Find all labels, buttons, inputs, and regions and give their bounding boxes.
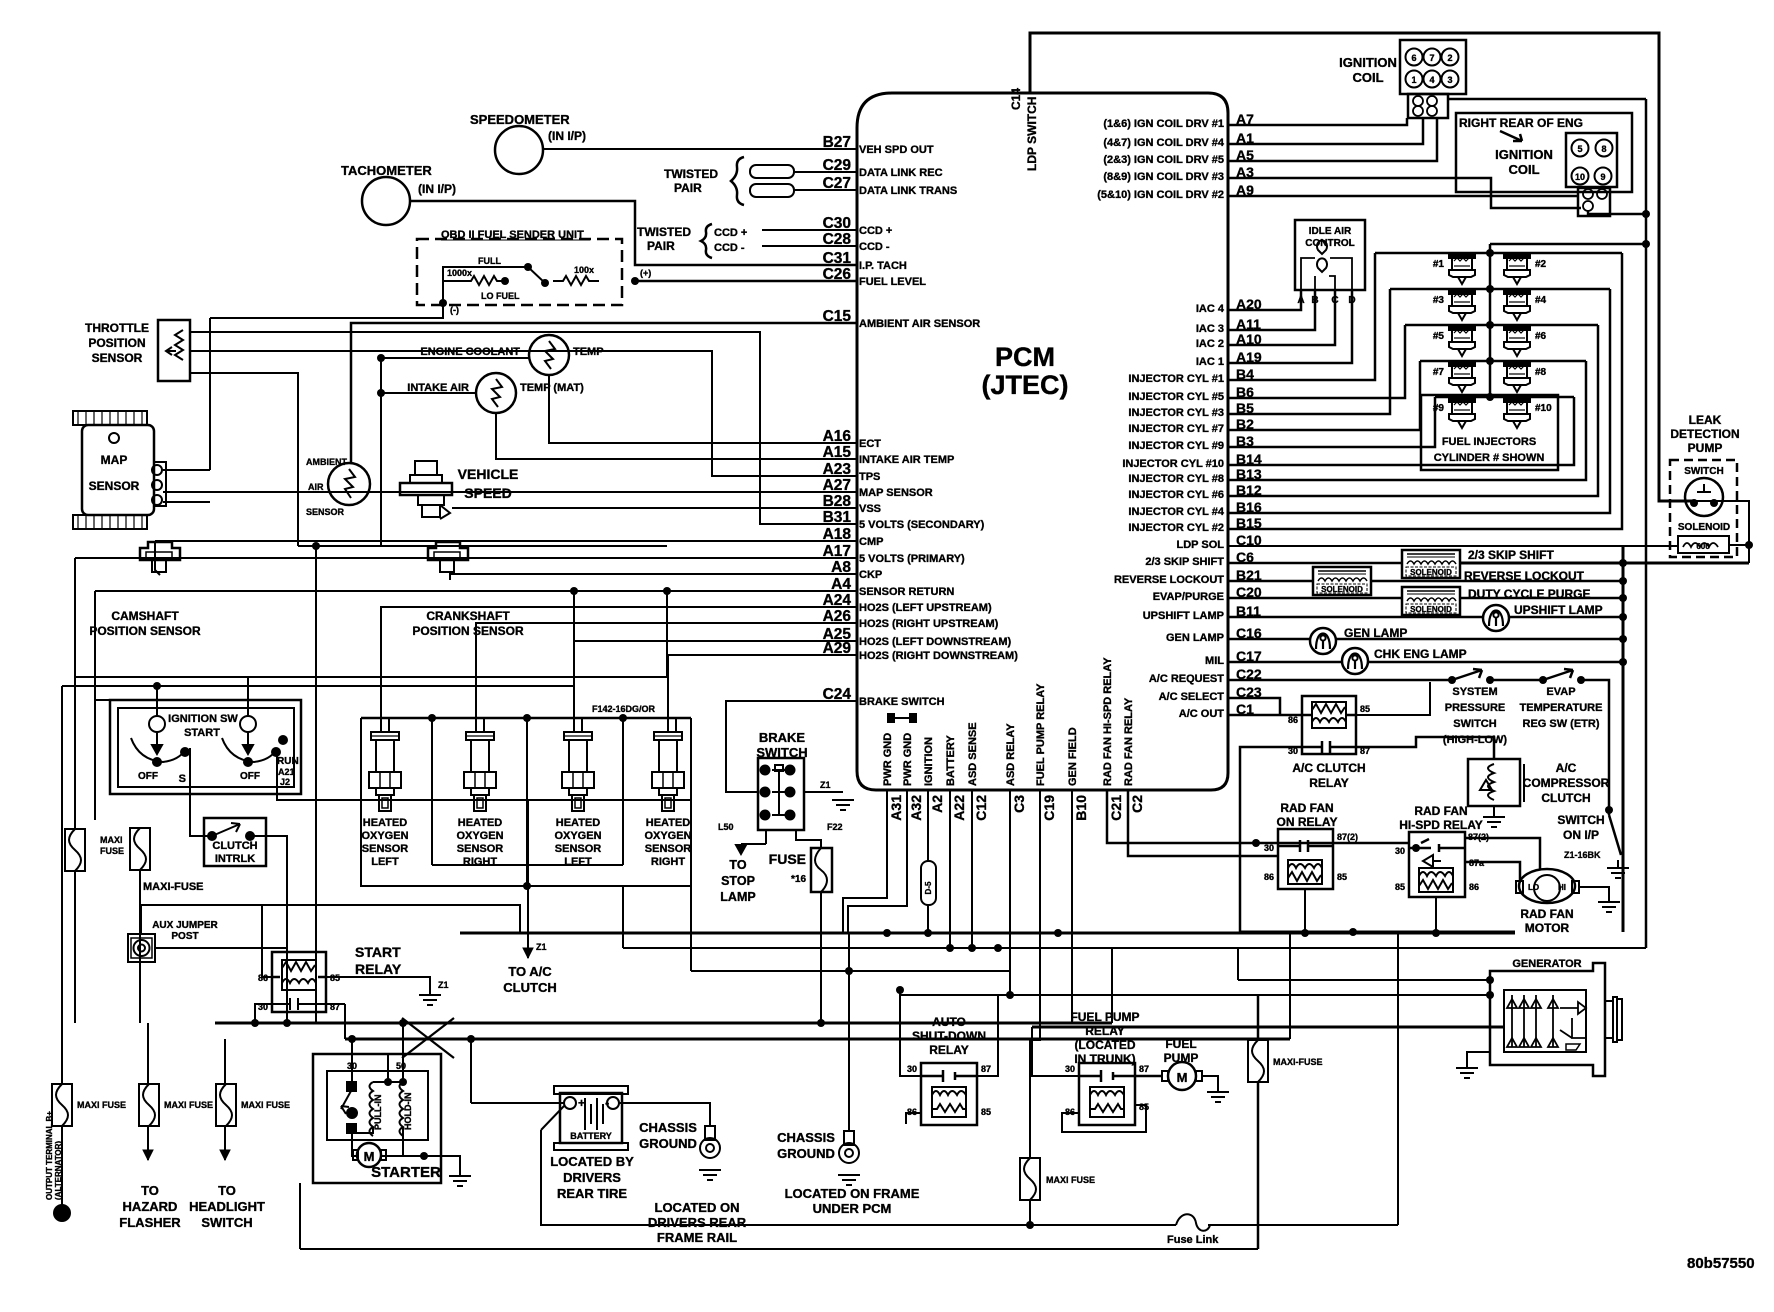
svg-text:LDP SWITCH: LDP SWITCH (1025, 97, 1039, 171)
svg-text:(-): (-) (450, 305, 459, 315)
svg-text:CLUTCH: CLUTCH (1541, 791, 1590, 805)
junction 1058,933 (1054, 929, 1062, 937)
pin A3 (8&9) IGN COIL DRV #3 (1103, 164, 1254, 183)
junction 471,1039 (467, 1035, 475, 1043)
wire start relay 30 (255, 1004, 272, 1023)
MAP sensor (73, 411, 166, 529)
svg-text:SENSOR RETURN: SENSOR RETURN (859, 586, 954, 598)
pin A16 ECT (823, 428, 882, 450)
pin A26 HO2S (RIGHT UPSTREAM) (823, 608, 999, 630)
svg-text:TO A/C: TO A/C (508, 964, 552, 979)
pin A8 CKP (831, 559, 882, 581)
svg-text:SWITCH: SWITCH (1557, 813, 1604, 827)
svg-text:CCD -: CCD - (714, 242, 745, 254)
svg-text:START: START (184, 727, 220, 739)
wire B21 reverse lockout (1228, 580, 1313, 583)
svg-text:A32: A32 (908, 795, 924, 821)
injector row 4 feed wire (1420, 360, 1586, 363)
svg-text:INJECTOR CYL #6: INJECTOR CYL #6 (1128, 489, 1224, 501)
D-5 splice (921, 861, 936, 905)
svg-text:FUEL: FUEL (1165, 1037, 1196, 1051)
wire starter coils top (373, 1081, 403, 1083)
pin A7 (1&6) IGN COIL DRV #1 (1103, 111, 1254, 130)
svg-text:TO: TO (729, 858, 746, 872)
injector row 2 feed wire (1390, 288, 1610, 291)
svg-text:LOCATED ON FRAME: LOCATED ON FRAME (785, 1186, 920, 1201)
svg-text:GEN FIELD: GEN FIELD (1067, 727, 1079, 786)
svg-text:HEATED: HEATED (646, 817, 690, 829)
svg-text:HEATED: HEATED (363, 817, 407, 829)
wire A32 drop (848, 790, 907, 933)
heated oxygen sensor 1 (left) (369, 732, 401, 811)
svg-text:#8: #8 (1535, 367, 1547, 378)
svg-text:80b57550: 80b57550 (1687, 1255, 1755, 1272)
wire B11 upshift lamp (1228, 616, 1483, 619)
junction ign feed (153, 682, 161, 690)
svg-text:*16: *16 (791, 874, 806, 885)
rad fan motor (1516, 869, 1579, 903)
svg-text:7: 7 (1429, 53, 1434, 63)
wire MAP extra stubs (163, 469, 210, 471)
svg-text:RAD FAN HI-SPD RELAY: RAD FAN HI-SPD RELAY (1102, 657, 1114, 786)
svg-text:M: M (364, 1149, 375, 1164)
wire C31 IP tach (409, 201, 857, 265)
wire injector pin riser right 5 (1228, 397, 1574, 465)
clutch interlock switch (204, 818, 266, 866)
svg-text:(IN I/P): (IN I/P) (418, 182, 456, 196)
coil tower 6 (1406, 49, 1423, 66)
wire C27 data link trans (793, 189, 857, 191)
svg-text:SWITCH: SWITCH (201, 1215, 252, 1230)
svg-text:86: 86 (1469, 882, 1479, 892)
fuel sender wiper (528, 267, 545, 283)
svg-text:(5&10) IGN COIL DRV #2: (5&10) IGN COIL DRV #2 (1097, 189, 1224, 201)
wire B10 gen field drop (1071, 790, 1073, 1023)
wire hazard drop (147, 1023, 149, 1084)
svg-text:A2: A2 (929, 795, 945, 813)
wire B27 veh spd out (542, 148, 857, 150)
start relay (272, 952, 326, 1012)
svg-text:#2: #2 (1535, 259, 1547, 270)
svg-text:RAD FAN: RAD FAN (1520, 907, 1573, 921)
reverse lockout solenoid (1313, 567, 1371, 595)
svg-text:CLUTCH: CLUTCH (503, 980, 556, 995)
svg-text:2: 2 (1447, 53, 1452, 63)
right rear of eng box (1456, 113, 1632, 192)
pin B10 GEN FIELD (1067, 727, 1089, 820)
chassis ground 1 (700, 1126, 720, 1158)
svg-text:POST: POST (171, 931, 198, 942)
fuel injectors note box (1421, 395, 1558, 470)
svg-text:HOLD-IN: HOLD-IN (403, 1093, 413, 1131)
junction 900,990 (896, 986, 904, 994)
wire IAC A20 (1228, 290, 1301, 310)
junction 403,1023 (399, 1019, 407, 1027)
wire injector pin riser left 4 (1228, 361, 1420, 430)
svg-text:SWITCH: SWITCH (1684, 466, 1723, 477)
wire IAC A11 (1228, 290, 1315, 330)
junction LDP solenoid out (1745, 541, 1753, 549)
maxi fuse bottom 2 (139, 1084, 159, 1126)
svg-text:(IN I/P): (IN I/P) (548, 129, 586, 143)
svg-text:HEATED: HEATED (458, 817, 502, 829)
svg-text:PWR GND: PWR GND (882, 733, 894, 786)
pin A11 IAC 3 (1196, 316, 1261, 335)
ground Z1 brake (832, 800, 854, 810)
wire A16 ECT (549, 374, 857, 443)
svg-text:(+): (+) (640, 268, 651, 278)
svg-text:PCM: PCM (995, 342, 1055, 372)
junction o2 bus 1 (428, 714, 436, 722)
svg-text:CRANKSHAFT: CRANKSHAFT (426, 609, 510, 623)
wire x1290 riser to rad fan area (1289, 932, 1291, 1039)
wire C6 2/3 skip shift (1228, 562, 1402, 565)
svg-text:SWITCH: SWITCH (756, 745, 807, 760)
pin C20 EVAP/PURGE (1153, 584, 1262, 603)
wire coil connector top to right bus (1447, 98, 1646, 100)
svg-text:85: 85 (1360, 704, 1370, 714)
junction A4/667 (663, 587, 671, 595)
svg-text:INJECTOR CYL #1: INJECTOR CYL #1 (1128, 373, 1224, 385)
pin A17 5 VOLTS (PRIMARY) (823, 543, 965, 565)
wire C28 CCD- (762, 245, 857, 247)
svg-text:30: 30 (1065, 1064, 1075, 1074)
maxi fuse bottom 3 (216, 1084, 236, 1126)
svg-text:FULL: FULL (478, 256, 501, 266)
chassis ground 2 (848, 933, 850, 1131)
svg-text:MAXI FUSE: MAXI FUSE (164, 1100, 213, 1110)
svg-text:SOLENOID: SOLENOID (1678, 522, 1730, 533)
wire C24 brake switch (726, 701, 857, 792)
svg-text:VSS: VSS (859, 503, 881, 515)
wire A18 CMP (155, 541, 160, 575)
wire starter M to case (352, 1133, 357, 1156)
svg-text:C2: C2 (1129, 795, 1145, 813)
injector #1 (1449, 253, 1475, 284)
wire x667 drop (666, 591, 668, 677)
junction 255,1023 (251, 1019, 259, 1027)
wire x1032 riser (1031, 1027, 1033, 1076)
svg-text:SENSOR: SENSOR (457, 843, 504, 855)
rad fan on relay (1278, 829, 1333, 889)
wire compressor ground (1493, 806, 1495, 817)
junction 1010,995 (1006, 991, 1014, 999)
wire A2 ignition drop (927, 790, 929, 861)
svg-text:J2: J2 (280, 777, 290, 787)
svg-text:4: 4 (1429, 75, 1434, 85)
wire x300 riser (299, 1183, 301, 1249)
svg-text:#3: #3 (1433, 295, 1445, 306)
svg-text:A31: A31 (888, 795, 904, 821)
pin A25 HO2S (LEFT DOWNSTREAM) (823, 626, 1012, 648)
pin C29 DATA LINK REC (823, 157, 943, 179)
output terminal B+ stud (53, 1204, 71, 1222)
pin A18 CMP (823, 526, 884, 548)
svg-text:HI-SPD RELAY: HI-SPD RELAY (1399, 818, 1483, 832)
svg-text:FUSE: FUSE (100, 846, 124, 856)
injector #8 (1504, 361, 1530, 392)
wire C30 CCD+ (762, 229, 857, 231)
svg-text:PAIR: PAIR (674, 181, 702, 195)
svg-text:IGNITION SW: IGNITION SW (168, 713, 238, 725)
wire C22 A/C request (1228, 679, 1449, 682)
OBD II fuel sender unit box (417, 239, 622, 305)
wire injector pin riser left 5 (1228, 397, 1435, 447)
svg-text:COIL: COIL (1352, 70, 1383, 85)
ignition switch box (110, 700, 301, 794)
wire x381 drop (380, 358, 382, 546)
injector #4 (1504, 289, 1530, 320)
svg-text:100x: 100x (574, 265, 594, 275)
wire clutch out (250, 836, 287, 1023)
wire left rails (62, 685, 574, 687)
svg-text:HI: HI (1558, 883, 1566, 892)
pin B12 INJECTOR CYL #6 (1128, 482, 1261, 501)
wire hi-spd 87(2) (1465, 838, 1540, 869)
svg-text:C3: C3 (1011, 795, 1027, 813)
wire injector pin riser left 1 (1228, 253, 1375, 380)
crankshaft position sensor (428, 542, 468, 572)
svg-text:OXYGEN: OXYGEN (644, 830, 691, 842)
svg-text:STARTER: STARTER (371, 1164, 441, 1181)
pin A32 PWR GND (902, 733, 924, 821)
svg-text:UPSHIFT LAMP: UPSHIFT LAMP (1143, 610, 1224, 622)
pin B5 INJECTOR CYL #3 (1128, 400, 1254, 419)
junction 1305,932 (1301, 929, 1309, 937)
wire AC relay 30 left (1240, 747, 1302, 932)
junction 821,1023 (817, 1019, 825, 1027)
svg-text:3: 3 (1447, 75, 1452, 85)
junction o2 bus 3 (619, 714, 627, 722)
pin B21 REVERSE LOCKOUT (1114, 567, 1262, 586)
fuse link symbol (1176, 1214, 1210, 1231)
svg-text:2/3 SKIP SHIFT: 2/3 SKIP SHIFT (1468, 548, 1554, 562)
junction injector bus row 1 (1486, 249, 1494, 257)
svg-text:LDP SOL: LDP SOL (1177, 539, 1225, 551)
ignition switch pole 2 (240, 716, 256, 732)
injector row 3 feed wire (1405, 324, 1598, 327)
svg-text:TO: TO (141, 1183, 159, 1198)
svg-text:MAXI: MAXI (100, 835, 123, 845)
svg-text:REVERSE LOCKOUT: REVERSE LOCKOUT (1114, 574, 1224, 586)
pin A27 MAP SENSOR (823, 477, 933, 499)
injector #7 (1449, 361, 1475, 392)
svg-text:AMBIENT AIR SENSOR: AMBIENT AIR SENSOR (859, 318, 980, 330)
svg-text:RELAY: RELAY (1309, 776, 1349, 790)
svg-text:30: 30 (907, 1064, 917, 1074)
svg-text:IAC 2: IAC 2 (1196, 338, 1224, 350)
wire y990 stub (843, 790, 887, 933)
wire battery - to chassis ground (619, 1103, 710, 1126)
svg-text:INJECTOR CYL #5: INJECTOR CYL #5 (1128, 391, 1224, 403)
system pressure switch (1448, 676, 1456, 684)
A/C clutch relay (1302, 696, 1356, 754)
svg-text:DRIVERS: DRIVERS (563, 1170, 621, 1185)
svg-text:SYSTEM: SYSTEM (1452, 686, 1497, 698)
maxi fuse bottom 1 (52, 1084, 72, 1126)
wire C3 ASD relay drop (1009, 790, 1011, 995)
wire to A/C clutch (527, 800, 529, 958)
svg-text:(1&6) IGN COIL DRV #1: (1&6) IGN COIL DRV #1 (1103, 118, 1224, 130)
wire brake Z1 (804, 791, 843, 793)
pin C30 CCD + (823, 215, 893, 237)
injector #2 (1504, 253, 1530, 284)
svg-text:CHASSIS: CHASSIS (777, 1130, 835, 1145)
pin A29 HO2S (RIGHT DOWNSTREAM) (823, 640, 1019, 662)
svg-text:FUEL INJECTORS: FUEL INJECTORS (1442, 436, 1536, 448)
wire C15 ambient air (351, 323, 857, 464)
svg-text:I.P. TACH: I.P. TACH (859, 260, 907, 272)
wire C16 gen lamp (1228, 638, 1310, 641)
pin B15 INJECTOR CYL #2 (1128, 515, 1261, 534)
brake switch assembly (758, 758, 804, 830)
svg-text:#1: #1 (1433, 259, 1445, 270)
wire B31 5V secondary (190, 332, 857, 524)
junction 352,1039 (348, 1035, 356, 1043)
wire x691 ext (690, 886, 692, 971)
svg-text:SENSOR: SENSOR (306, 507, 345, 517)
wire A17 5V primary (75, 557, 857, 559)
svg-text:ASD RELAY: ASD RELAY (1005, 723, 1017, 786)
svg-text:SPEEDOMETER: SPEEDOMETER (470, 112, 570, 127)
pin C15 AMBIENT AIR SENSOR (823, 308, 981, 330)
gen lamp (1310, 628, 1336, 654)
pin A1 (4&7) IGN COIL DRV #4 (1103, 130, 1254, 149)
pin C24 BRAKE SWITCH (823, 686, 945, 708)
svg-text:INTAKE AIR TEMP: INTAKE AIR TEMP (859, 454, 954, 466)
svg-text:MAXI FUSE: MAXI FUSE (1046, 1175, 1095, 1185)
maxi fuse (trunk feed) (1020, 1158, 1040, 1200)
wire FP 87 to pump (1135, 1075, 1162, 1078)
svg-text:INJECTOR CYL #9: INJECTOR CYL #9 (1128, 440, 1224, 452)
wire A8 CKP (450, 574, 857, 580)
PCM (JTEC) module outline U1 (857, 93, 1228, 790)
svg-text:SENSOR: SENSOR (555, 843, 602, 855)
pin B2 INJECTOR CYL #7 (1128, 416, 1254, 435)
svg-text:AIR: AIR (308, 482, 324, 492)
wire A23 TPS (190, 351, 857, 476)
wire leak pump switch right to solenoid (1716, 501, 1749, 563)
duty cycle purge solenoid (1402, 587, 1460, 615)
A/C compressor clutch (1468, 759, 1524, 806)
right return bus x1623 (1622, 546, 1625, 932)
wire A1 (1228, 118, 1423, 144)
svg-text:RAD FAN RELAY: RAD FAN RELAY (1123, 697, 1135, 786)
injector #6 (1504, 325, 1530, 356)
svg-text:GEN LAMP: GEN LAMP (1344, 626, 1407, 640)
svg-text:#4: #4 (1535, 295, 1547, 306)
pin A24 HO2S (LEFT UPSTREAM) (823, 592, 992, 614)
injector #5 (1449, 325, 1475, 356)
wire pump ground (1202, 1076, 1218, 1092)
svg-text:A/C: A/C (1556, 761, 1577, 775)
pin A9 (5&10) IGN COIL DRV #2 (1097, 182, 1254, 201)
svg-text:TWISTED: TWISTED (664, 167, 718, 181)
pin B14 INJECTOR CYL #10 (1122, 451, 1262, 470)
svg-text:Fuse Link: Fuse Link (1167, 1234, 1219, 1246)
svg-text:GROUND: GROUND (639, 1136, 697, 1151)
junction 1030,1225 (1026, 1221, 1034, 1229)
svg-text:Z1-16BK: Z1-16BK (1564, 850, 1601, 860)
bus y933 bold (460, 932, 1515, 935)
pin A20 IAC 4 (1196, 296, 1262, 315)
svg-text:FRAME RAIL: FRAME RAIL (657, 1230, 737, 1245)
generator ground (1467, 1052, 1490, 1068)
wire fuse F2 drop (139, 870, 141, 1023)
svg-text:2/3 SKIP SHIFT: 2/3 SKIP SHIFT (1145, 556, 1224, 568)
svg-text:IGNITION: IGNITION (1339, 55, 1397, 70)
wire A3 (1228, 178, 1581, 208)
svg-text:IAC 1: IAC 1 (1196, 356, 1224, 368)
svg-text:TEMPERATURE: TEMPERATURE (1520, 702, 1603, 714)
svg-text:SENSOR: SENSOR (92, 351, 143, 365)
wire C1 A/C out (1228, 714, 1302, 717)
wire A15 intake air temp (496, 412, 857, 459)
twisted pair (CCD) (637, 224, 747, 258)
wire ign S lead (190, 748, 210, 836)
twisted pair (data link) (664, 157, 794, 205)
svg-text:Z1: Z1 (536, 942, 547, 952)
svg-text:SHUT-DOWN: SHUT-DOWN (912, 1029, 986, 1043)
svg-text:MAP: MAP (101, 453, 128, 467)
wire starter 30 lead (351, 1039, 353, 1082)
svg-text:INJECTOR CYL #10: INJECTOR CYL #10 (1122, 458, 1224, 470)
svg-text:MAXI FUSE: MAXI FUSE (241, 1100, 290, 1110)
wire C10 LDP sol (1228, 545, 1678, 547)
o2 heater bus F142-16DG/OR (361, 717, 691, 720)
svg-text:-: - (605, 1095, 609, 1110)
svg-text:(ALTERNATOR): (ALTERNATOR) (54, 1141, 63, 1200)
svg-text:BATTERY: BATTERY (945, 735, 957, 786)
wire fuse drop (820, 892, 822, 1023)
svg-text:(4&7) IGN COIL DRV #4: (4&7) IGN COIL DRV #4 (1103, 137, 1225, 149)
wire AC relay 87 (1356, 737, 1494, 759)
bus y1023 bold (215, 1022, 1112, 1025)
svg-text:#5: #5 (1433, 331, 1445, 342)
wire injector pin riser right 1 (1228, 253, 1622, 529)
wire injector bus to right bus (1490, 243, 1646, 245)
svg-text:30: 30 (1395, 846, 1405, 856)
injector bus vertical (1489, 244, 1492, 397)
junction 381,393 (377, 389, 385, 397)
svg-text:C19: C19 (1041, 795, 1057, 821)
wire A22 battery drop (949, 790, 951, 948)
wire injector pin riser right 2 (1228, 289, 1610, 513)
svg-text:SENSOR: SENSOR (362, 843, 409, 855)
svg-text:DATA LINK TRANS: DATA LINK TRANS (859, 185, 957, 197)
wire brake F22 to fuse (796, 830, 821, 848)
svg-text:LEAK: LEAK (1689, 413, 1722, 427)
svg-text:BRAKE SWITCH: BRAKE SWITCH (859, 696, 945, 708)
junction 1623,563 (1619, 559, 1627, 567)
junction 1623,639 (1619, 635, 1627, 643)
junction 1623,581 (1619, 577, 1627, 585)
starter solenoid contact (341, 1082, 357, 1133)
svg-text:EVAP/PURGE: EVAP/PURGE (1153, 591, 1224, 603)
svg-text:PRESSURE: PRESSURE (1445, 702, 1506, 714)
pin A31 PWR GND (882, 733, 904, 821)
wire A27 MAP (163, 491, 857, 493)
wire injector pin riser right 3 (1228, 325, 1598, 496)
wire AC relay 85 up (1356, 682, 1430, 715)
svg-text:SENSOR: SENSOR (645, 843, 692, 855)
wire C21 rad fan hi-spd (1107, 790, 1409, 843)
junction 1416,848 (1412, 844, 1420, 852)
wire x1238 riser (1237, 948, 1239, 980)
svg-text:HAZARD: HAZARD (123, 1199, 178, 1214)
svg-text:C12: C12 (973, 795, 989, 821)
junction injector bus row 2 (1486, 285, 1494, 293)
